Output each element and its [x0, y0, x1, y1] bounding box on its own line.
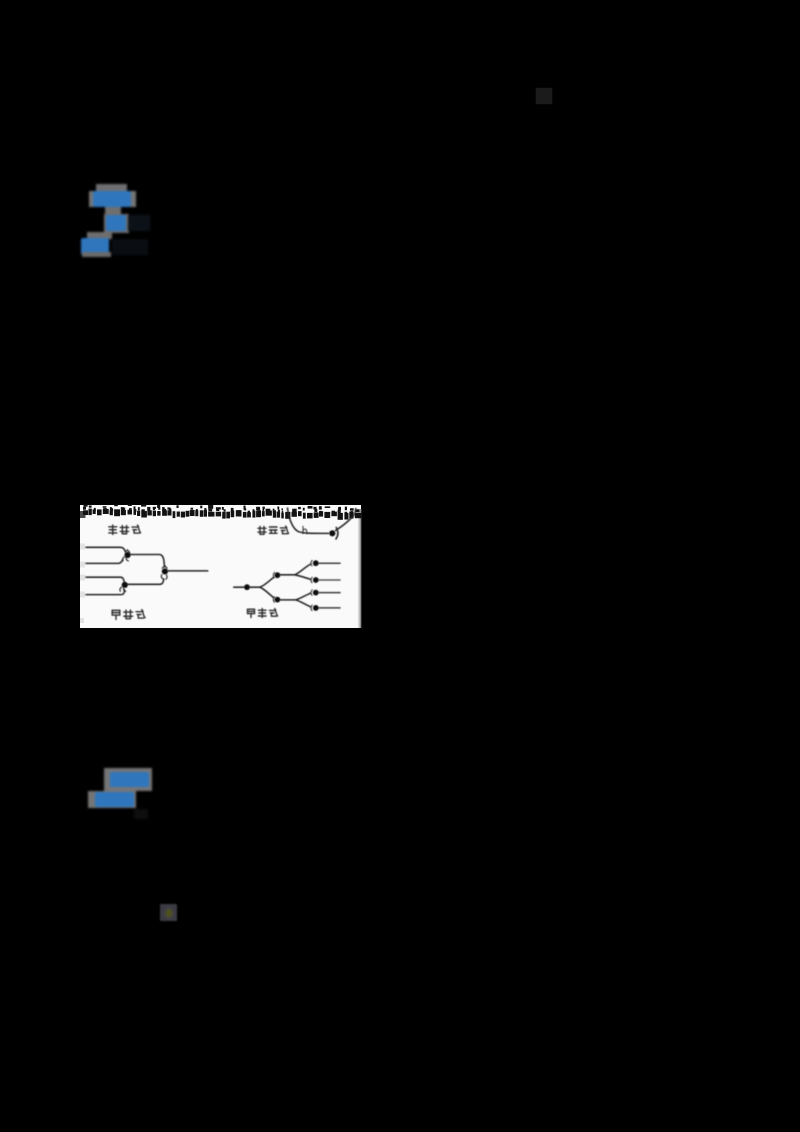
blue text A2 — [106, 215, 126, 232]
garbled caption text (clipped) — [83, 504, 361, 520]
converge dot 1 — [125, 552, 131, 558]
emoji square with olive glyph — [160, 904, 177, 921]
disperse dot M1 — [275, 572, 281, 578]
loop curve — [288, 508, 356, 539]
gray highlight A0 — [96, 184, 127, 193]
disperse fork 2a — [280, 560, 312, 582]
label 环路式 — [258, 526, 289, 534]
blue text A3 — [81, 238, 109, 255]
dark residue Br — [134, 809, 148, 819]
disperse leaf dot 2 — [313, 577, 319, 583]
converge dot 3 — [122, 582, 128, 588]
converge mid line 2 — [128, 579, 164, 584]
disperse leaf dot 4 — [313, 605, 319, 611]
blue text A1 — [93, 191, 131, 207]
placeholder dark square (top right) — [536, 88, 552, 105]
disperse input — [234, 586, 244, 588]
gray highlight A3t — [87, 232, 112, 239]
gray highlight A2 — [104, 214, 129, 233]
disperse fork 2b — [280, 590, 312, 611]
converge mid line 1 — [131, 555, 168, 580]
gray highlight B2 — [88, 791, 136, 808]
converge line A — [86, 547, 130, 563]
label h in loop — [303, 526, 307, 533]
label 会聚式 — [112, 610, 145, 620]
highlighted blue text block A — [0, 0, 1, 1]
gray connector A — [105, 207, 121, 215]
dark residue A2r — [128, 215, 150, 231]
disperse leaf line 2 — [319, 579, 340, 581]
blue text B2 — [95, 792, 134, 807]
disperse fork 1 — [250, 572, 275, 602]
label 单线式 — [109, 525, 141, 534]
disperse leaf dot 3 — [313, 590, 319, 596]
gray highlight A1 — [89, 191, 136, 207]
converge dot 2 — [162, 568, 168, 574]
disperse leaf line 4 — [319, 607, 340, 609]
disperse root dot — [244, 584, 250, 590]
disperse dot M2 — [275, 597, 281, 603]
margin marks — [80, 544, 85, 624]
blue text B1 — [110, 772, 149, 787]
gray highlight A3b — [82, 252, 111, 257]
highlighted blue text block B — [0, 0, 1, 1]
dark residue A3r — [112, 239, 148, 255]
converge out line — [168, 570, 208, 572]
gray highlight B1 — [104, 768, 152, 791]
loop node dot — [329, 530, 335, 536]
label 分散式 — [248, 609, 278, 618]
figure panel background — [80, 505, 361, 628]
disperse leaf line 3 — [319, 592, 340, 594]
disperse leaf line 1 — [319, 562, 340, 564]
disperse leaf dot 1 — [313, 560, 319, 566]
converge line C — [86, 577, 126, 594]
